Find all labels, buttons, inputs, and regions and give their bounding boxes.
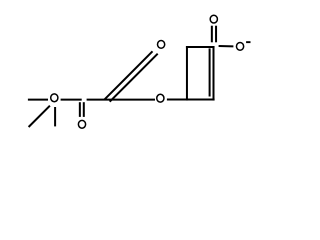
wire C5=O5 double bond right — [215, 26, 217, 43]
ring right edge — [213, 46, 215, 101]
ring left edge — [186, 46, 188, 101]
wire C2=O2 double bond main — [83, 102, 85, 117]
wire methyl3 of tBu (vertical) — [54, 107, 56, 126]
wire C2=O2 double bond offset — [79, 102, 81, 117]
wire methyl2 of tBu (diagonal) — [29, 106, 50, 127]
wire C3=O3 diagonal main — [110, 54, 158, 102]
wire O4 to ring — [167, 99, 186, 101]
wire C3=O3 diagonal offset — [104, 51, 152, 99]
wire C5=O5 double bond left — [211, 26, 213, 43]
ring inner double bond line — [209, 48, 211, 96]
wire C2 to O4 chain — [87, 99, 155, 101]
ring top edge — [186, 46, 215, 48]
atom O4 ester oxygen right — [157, 94, 164, 102]
charge minus sign — [246, 41, 250, 43]
atom O1 ester oxygen left — [51, 94, 58, 102]
wire O1 to C2 — [61, 99, 82, 101]
atom O5 carboxylate top oxygen — [210, 15, 217, 23]
wire methyl1 of tBu — [28, 99, 48, 101]
wire C5 to O6 — [219, 45, 234, 47]
atom O6 carboxylate O minus — [236, 43, 243, 51]
atom O3 carbonyl oxygen upper middle — [158, 40, 165, 48]
atom O2 carbonyl oxygen below — [78, 120, 85, 128]
ring bottom edge — [186, 99, 215, 101]
